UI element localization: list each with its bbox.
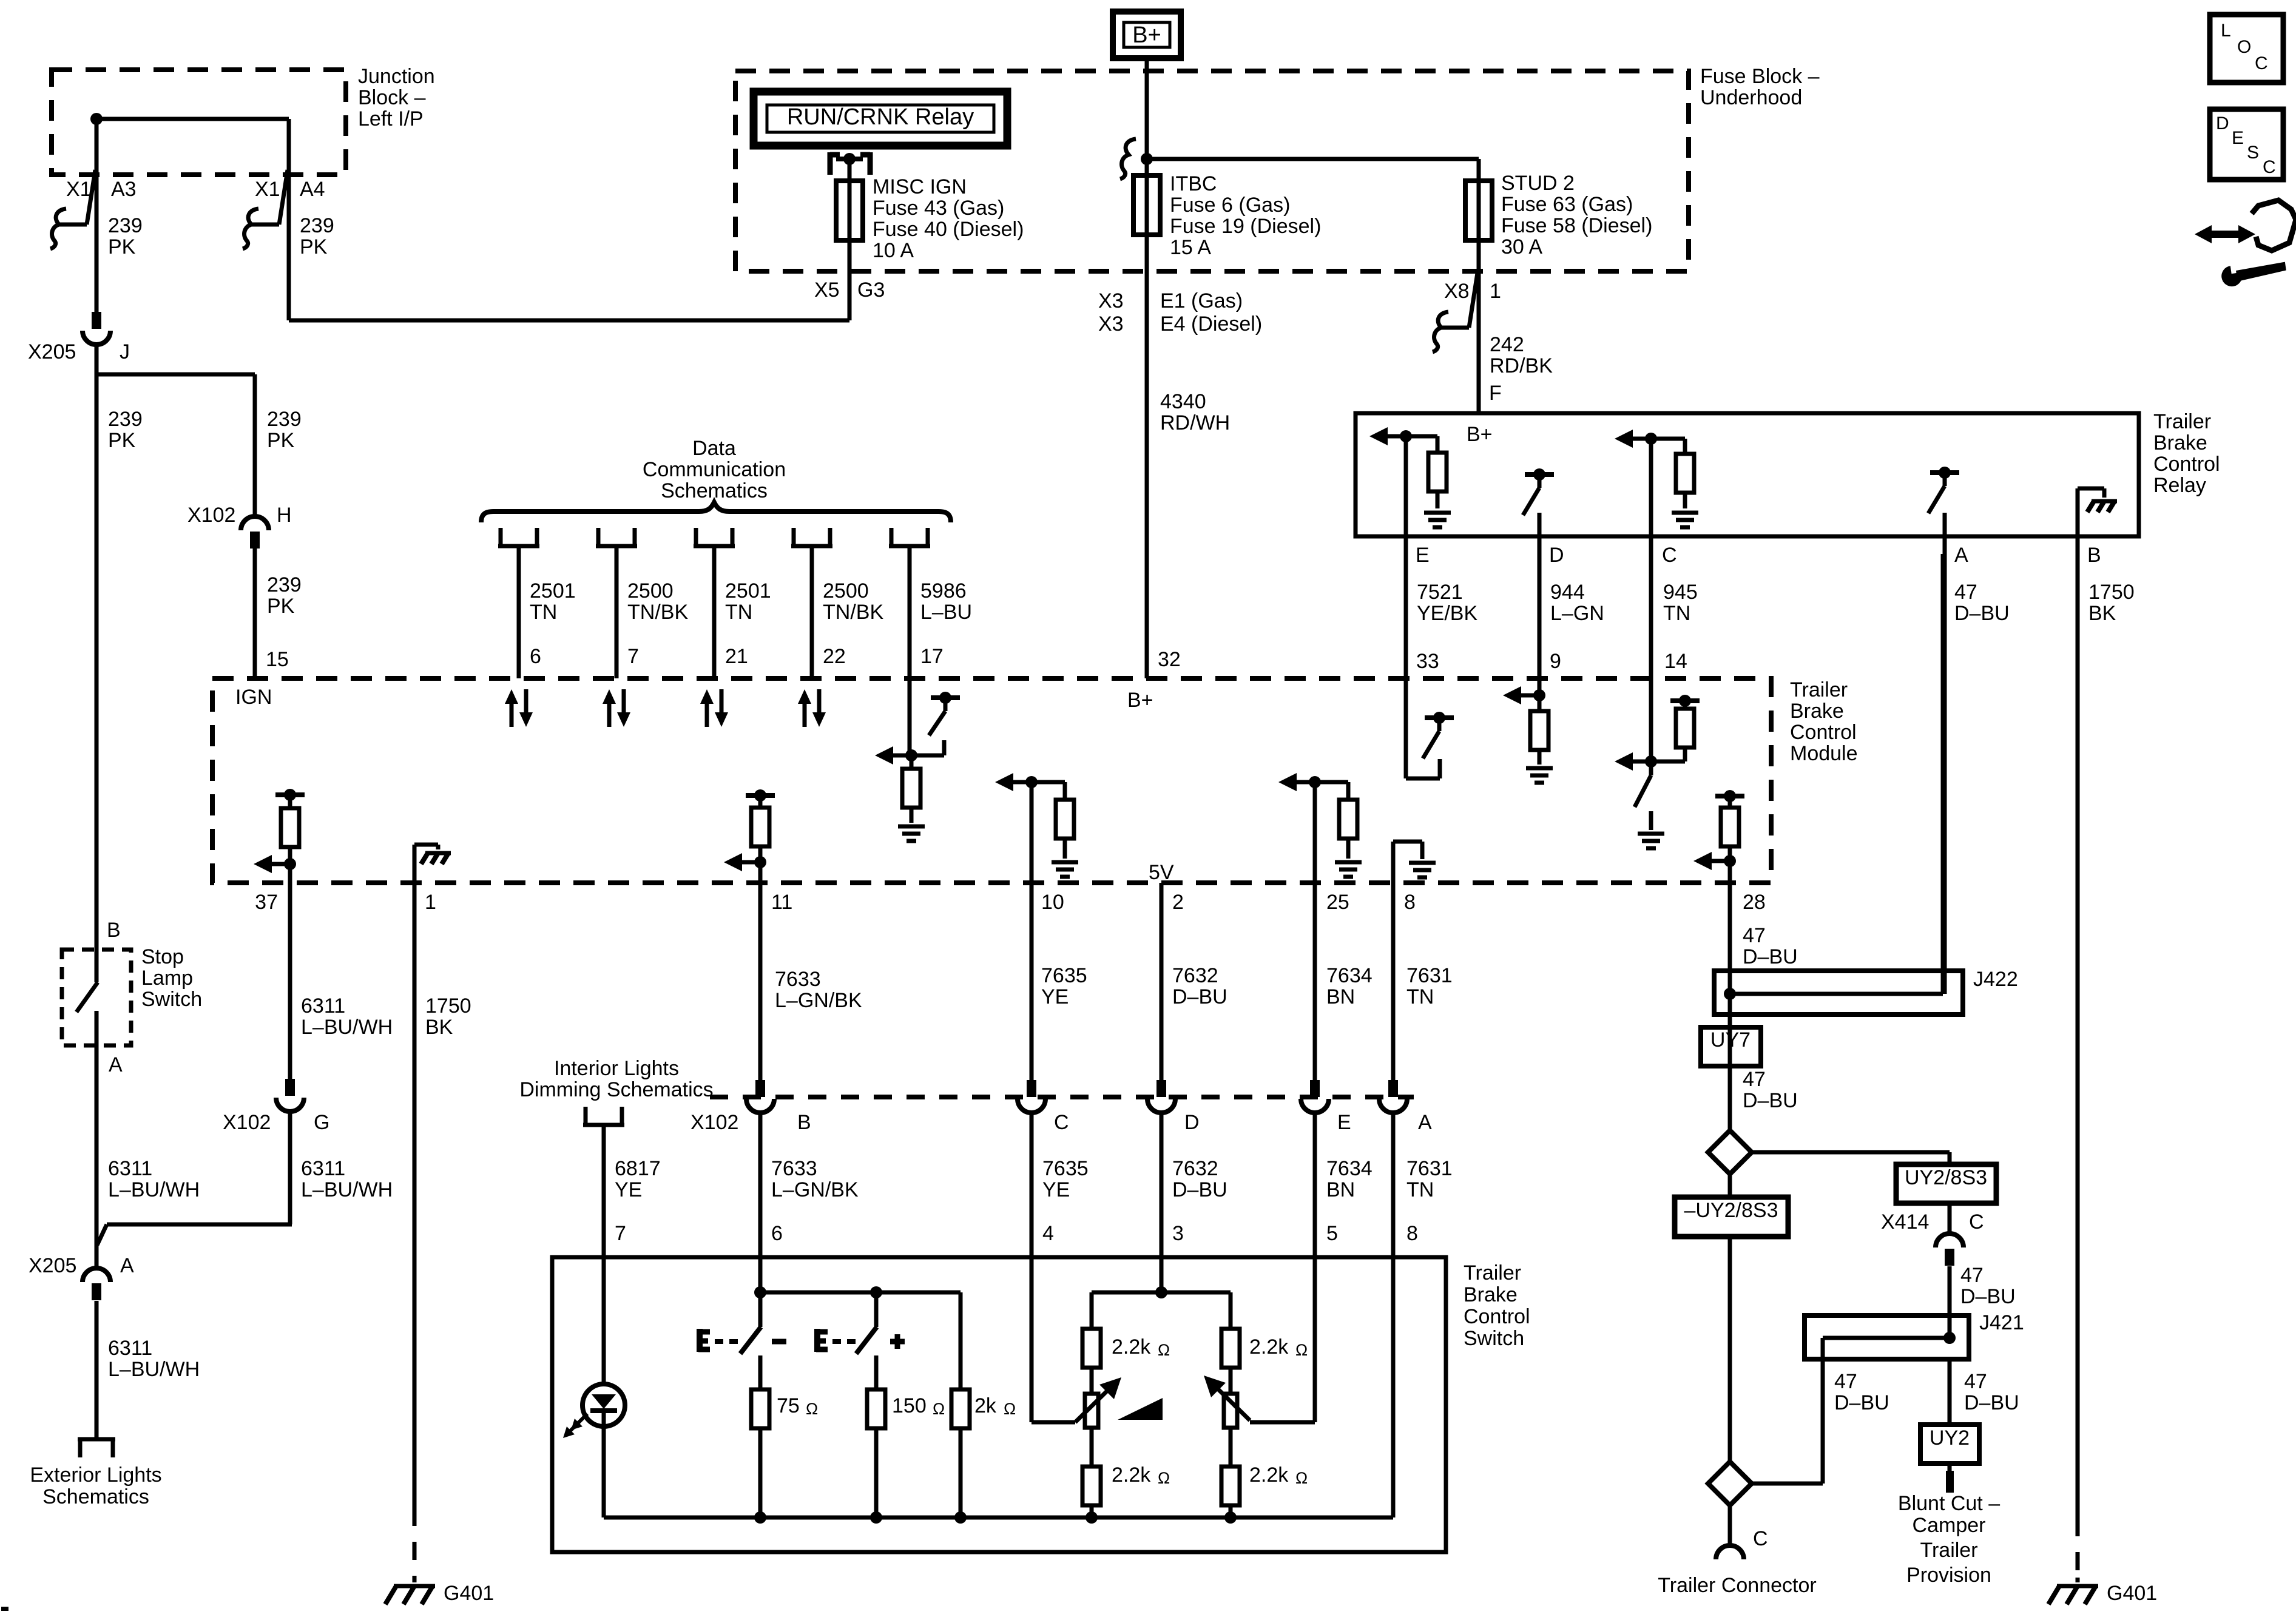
svg-text:L–BU/WH: L–BU/WH	[108, 1358, 200, 1381]
svg-text:A: A	[1954, 544, 1968, 567]
svg-text:7632: 7632	[1172, 1157, 1218, 1180]
svg-text:47: 47	[1834, 1370, 1857, 1393]
svg-text:X102: X102	[187, 504, 235, 527]
svg-text:25: 25	[1326, 891, 1349, 914]
svg-text:Underhood: Underhood	[1700, 86, 1802, 109]
svg-text:15: 15	[266, 648, 289, 671]
svg-text:33: 33	[1416, 650, 1439, 673]
svg-text:D–BU: D–BU	[1964, 1391, 2019, 1414]
svg-text:X3: X3	[1098, 289, 1124, 312]
svg-text:6311: 6311	[108, 1157, 152, 1180]
svg-text:G: G	[314, 1111, 329, 1134]
svg-text:UY7: UY7	[1710, 1028, 1751, 1052]
svg-text:L–GN/BK: L–GN/BK	[771, 1178, 859, 1201]
svg-text:Left I/P: Left I/P	[358, 107, 424, 130]
svg-text:F: F	[1489, 382, 1502, 405]
svg-text:Relay: Relay	[2153, 474, 2206, 497]
svg-text:PK: PK	[267, 429, 295, 452]
svg-text:S: S	[2247, 143, 2259, 163]
svg-text:D–BU: D–BU	[1172, 1178, 1227, 1201]
svg-text:47: 47	[1960, 1264, 1984, 1287]
svg-text:Interior Lights: Interior Lights	[554, 1057, 679, 1080]
svg-text:Exterior Lights: Exterior Lights	[30, 1463, 161, 1487]
svg-text:32: 32	[1158, 648, 1181, 671]
svg-text:C: C	[1054, 1111, 1069, 1134]
svg-text:14: 14	[1664, 650, 1687, 673]
svg-text:Schematics: Schematics	[42, 1485, 149, 1508]
svg-text:MISC IGN: MISC IGN	[873, 175, 967, 198]
svg-text:B: B	[107, 919, 121, 942]
svg-text:7633: 7633	[771, 1157, 817, 1180]
svg-text:Trailer Connector: Trailer Connector	[1658, 1574, 1816, 1597]
svg-text:Ω: Ω	[1158, 1341, 1170, 1359]
svg-text:Ω: Ω	[1004, 1400, 1016, 1418]
svg-text:9: 9	[1550, 650, 1561, 673]
svg-text:B+: B+	[1127, 689, 1153, 712]
svg-text:L–GN: L–GN	[1550, 602, 1604, 625]
svg-text:B+: B+	[1132, 22, 1161, 48]
svg-text:Dimming Schematics: Dimming Schematics	[519, 1078, 713, 1101]
svg-text:PK: PK	[267, 595, 295, 618]
svg-text:Brake: Brake	[1464, 1283, 1518, 1306]
svg-text:Junction: Junction	[358, 65, 435, 88]
svg-text:D–BU: D–BU	[1743, 945, 1798, 968]
svg-text:ITBC: ITBC	[1170, 172, 1217, 195]
svg-text:E: E	[1416, 544, 1430, 567]
svg-text:Control: Control	[1464, 1305, 1530, 1328]
svg-text:L–BU: L–BU	[920, 601, 972, 624]
svg-text:Camper: Camper	[1913, 1514, 1986, 1537]
svg-text:D: D	[1184, 1111, 1200, 1134]
svg-text:Ω: Ω	[933, 1400, 945, 1418]
svg-text:UY2/8S3: UY2/8S3	[1905, 1166, 1987, 1189]
svg-text:YE: YE	[615, 1178, 642, 1201]
svg-text:Communication: Communication	[643, 458, 786, 481]
svg-text:TN: TN	[1406, 985, 1434, 1008]
svg-text:C: C	[1969, 1210, 1984, 1234]
svg-text:3: 3	[1172, 1222, 1184, 1245]
svg-text:239: 239	[267, 573, 302, 596]
svg-text:2k: 2k	[974, 1394, 997, 1417]
svg-text:Trailer: Trailer	[1920, 1539, 1977, 1562]
svg-text:TN: TN	[1663, 602, 1690, 625]
svg-text:Stop: Stop	[141, 945, 184, 968]
svg-text:10 A: 10 A	[873, 239, 914, 262]
svg-text:5V: 5V	[1149, 861, 1174, 884]
svg-text:6: 6	[771, 1222, 783, 1245]
svg-text:Brake: Brake	[2153, 431, 2207, 454]
svg-text:Trailer: Trailer	[2153, 410, 2211, 433]
svg-text:150: 150	[892, 1394, 927, 1417]
svg-text:D: D	[1549, 544, 1564, 567]
svg-text:4340: 4340	[1160, 390, 1206, 413]
svg-text:Fuse 43 (Gas): Fuse 43 (Gas)	[873, 197, 1004, 220]
svg-text:239: 239	[108, 214, 143, 237]
svg-text:4: 4	[1042, 1222, 1054, 1245]
svg-text:–UY2/8S3: –UY2/8S3	[1684, 1199, 1778, 1222]
svg-text:G3: G3	[857, 279, 885, 302]
svg-text:239: 239	[267, 408, 302, 431]
svg-text:L–GN/BK: L–GN/BK	[775, 989, 862, 1012]
svg-text:X3: X3	[1098, 312, 1124, 336]
svg-text:8: 8	[1406, 1222, 1418, 1245]
svg-text:2501: 2501	[530, 579, 576, 603]
svg-text:21: 21	[725, 645, 748, 668]
svg-text:242: 242	[1490, 333, 1524, 356]
svg-text:RUN/CRNK Relay: RUN/CRNK Relay	[787, 104, 974, 130]
svg-text:L–BU/WH: L–BU/WH	[108, 1178, 200, 1201]
svg-text:47: 47	[1743, 924, 1766, 947]
svg-text:A4: A4	[300, 178, 325, 201]
svg-text:RD/BK: RD/BK	[1490, 354, 1553, 377]
svg-text:Control: Control	[1790, 721, 1857, 744]
svg-text:Fuse 19 (Diesel): Fuse 19 (Diesel)	[1170, 215, 1321, 238]
svg-text:7: 7	[627, 645, 639, 668]
svg-text:22: 22	[823, 645, 846, 668]
svg-text:Ω: Ω	[1295, 1341, 1308, 1359]
svg-text:TN/BK: TN/BK	[823, 601, 883, 624]
svg-text:Trailer: Trailer	[1790, 678, 1848, 701]
svg-text:47: 47	[1954, 581, 1977, 604]
svg-text:X102: X102	[690, 1111, 738, 1134]
svg-text:B+: B+	[1467, 423, 1493, 446]
svg-text:7632: 7632	[1172, 964, 1218, 987]
svg-text:1750: 1750	[425, 994, 471, 1018]
svg-text:D–BU: D–BU	[1743, 1089, 1798, 1112]
svg-text:7: 7	[615, 1222, 626, 1245]
svg-text:D–BU: D–BU	[1960, 1285, 2016, 1308]
svg-text:28: 28	[1743, 891, 1766, 914]
svg-text:G401: G401	[2107, 1582, 2157, 1605]
svg-text:A3: A3	[111, 178, 137, 201]
svg-text:O: O	[2237, 37, 2251, 57]
svg-text:6817: 6817	[615, 1157, 661, 1180]
svg-text:2.2k: 2.2k	[1249, 1335, 1289, 1359]
svg-text:47: 47	[1964, 1370, 1987, 1393]
svg-text:BN: BN	[1326, 985, 1355, 1008]
svg-text:J422: J422	[1973, 968, 2018, 991]
svg-text:Module: Module	[1790, 742, 1858, 765]
svg-text:X102: X102	[223, 1111, 271, 1134]
svg-text:15 A: 15 A	[1170, 236, 1211, 259]
svg-text:7634: 7634	[1326, 964, 1373, 987]
svg-text:Switch: Switch	[1464, 1327, 1524, 1350]
svg-text:30 A: 30 A	[1501, 235, 1542, 258]
svg-text:1: 1	[425, 891, 436, 914]
svg-text:17: 17	[920, 645, 944, 668]
svg-text:Fuse 40 (Diesel): Fuse 40 (Diesel)	[873, 218, 1024, 241]
svg-text:75: 75	[777, 1394, 800, 1417]
svg-text:C: C	[2263, 157, 2276, 177]
svg-text:RD/WH: RD/WH	[1160, 411, 1230, 434]
svg-text:E: E	[1337, 1111, 1351, 1134]
svg-text:7631: 7631	[1406, 964, 1453, 987]
svg-text:BK: BK	[2088, 602, 2116, 625]
svg-text:X1: X1	[255, 178, 280, 201]
svg-text:945: 945	[1663, 581, 1698, 604]
svg-text:944: 944	[1550, 581, 1585, 604]
svg-text:C: C	[2255, 53, 2268, 73]
svg-text:1: 1	[1490, 280, 1501, 303]
svg-text:2.2k: 2.2k	[1112, 1463, 1151, 1487]
svg-text:A: A	[109, 1053, 123, 1076]
svg-text:Control: Control	[2153, 453, 2220, 476]
svg-text:2500: 2500	[823, 579, 869, 603]
svg-text:B: B	[797, 1111, 811, 1134]
svg-text:L–BU/WH: L–BU/WH	[301, 1016, 393, 1039]
svg-text:X8: X8	[1444, 280, 1470, 303]
svg-text:YE: YE	[1041, 985, 1069, 1008]
svg-text:10: 10	[1041, 891, 1064, 914]
svg-text:2: 2	[1172, 891, 1184, 914]
svg-text:YE/BK: YE/BK	[1417, 602, 1477, 625]
svg-text:YE: YE	[1042, 1178, 1070, 1201]
svg-text:D–BU: D–BU	[1172, 985, 1227, 1008]
svg-text:L: L	[2221, 21, 2231, 41]
svg-text:TN: TN	[530, 601, 557, 624]
svg-text:37: 37	[255, 891, 278, 914]
svg-text:7634: 7634	[1326, 1157, 1373, 1180]
svg-text:A: A	[1418, 1111, 1432, 1134]
svg-text:Fuse Block –: Fuse Block –	[1700, 65, 1820, 88]
svg-text:X414: X414	[1881, 1210, 1929, 1234]
svg-text:TN/BK: TN/BK	[627, 601, 688, 624]
svg-text:Blunt Cut –: Blunt Cut –	[1898, 1492, 2000, 1515]
svg-text:5986: 5986	[920, 579, 967, 603]
svg-text:PK: PK	[108, 429, 136, 452]
svg-text:6: 6	[530, 645, 541, 668]
svg-text:Switch: Switch	[141, 988, 202, 1011]
svg-text:X205: X205	[28, 340, 76, 363]
svg-text:A: A	[120, 1254, 134, 1277]
svg-text:239: 239	[300, 214, 334, 237]
svg-text:E1 (Gas): E1 (Gas)	[1160, 289, 1243, 312]
svg-text:BN: BN	[1326, 1178, 1355, 1201]
svg-text:TN: TN	[1406, 1178, 1434, 1201]
svg-text:Fuse 58 (Diesel): Fuse 58 (Diesel)	[1501, 214, 1652, 237]
svg-text:C: C	[1662, 544, 1677, 567]
svg-text:Block –: Block –	[358, 86, 426, 109]
svg-text:UY2: UY2	[1930, 1426, 1970, 1450]
svg-text:2.2k: 2.2k	[1249, 1463, 1289, 1487]
svg-text:J: J	[120, 340, 130, 363]
svg-text:Fuse 6 (Gas): Fuse 6 (Gas)	[1170, 194, 1290, 217]
svg-text:8: 8	[1404, 891, 1416, 914]
svg-text:1750: 1750	[2088, 581, 2135, 604]
svg-text:2500: 2500	[627, 579, 674, 603]
svg-text:239: 239	[108, 408, 143, 431]
svg-text:7633: 7633	[775, 968, 821, 991]
svg-text:2.2k: 2.2k	[1112, 1335, 1151, 1359]
svg-text:Ω: Ω	[1158, 1469, 1170, 1487]
svg-text:47: 47	[1743, 1068, 1766, 1091]
svg-text:J421: J421	[1979, 1311, 2024, 1334]
svg-text:Ω: Ω	[1295, 1469, 1308, 1487]
svg-text:Ω: Ω	[806, 1400, 818, 1418]
svg-text:H: H	[277, 504, 292, 527]
svg-text:X205: X205	[29, 1254, 76, 1277]
svg-text:7631: 7631	[1406, 1157, 1453, 1180]
svg-text:X5: X5	[814, 279, 840, 302]
svg-text:L–BU/WH: L–BU/WH	[301, 1178, 393, 1201]
svg-text:PK: PK	[300, 235, 328, 258]
svg-text:7521: 7521	[1417, 581, 1463, 604]
svg-text:Trailer: Trailer	[1464, 1261, 1521, 1284]
svg-text:D: D	[2216, 113, 2229, 133]
svg-text:BK: BK	[425, 1016, 453, 1039]
svg-text:6311: 6311	[301, 994, 345, 1018]
svg-text:6311: 6311	[301, 1157, 345, 1180]
svg-text:6311: 6311	[108, 1337, 152, 1360]
svg-text:11: 11	[771, 891, 792, 914]
svg-text:PK: PK	[108, 235, 136, 258]
svg-text:Brake: Brake	[1790, 700, 1844, 723]
svg-text:E4 (Diesel): E4 (Diesel)	[1160, 312, 1262, 336]
svg-text:Data: Data	[692, 437, 736, 460]
svg-text:7635: 7635	[1042, 1157, 1089, 1180]
svg-text:IGN: IGN	[235, 686, 272, 709]
svg-text:STUD 2: STUD 2	[1501, 172, 1575, 195]
svg-text:E: E	[2232, 128, 2244, 148]
svg-text:G401: G401	[444, 1582, 494, 1605]
svg-text:Fuse 63 (Gas): Fuse 63 (Gas)	[1501, 193, 1633, 216]
svg-text:2501: 2501	[725, 579, 771, 603]
svg-text:D–BU: D–BU	[1954, 602, 2010, 625]
svg-text:Lamp: Lamp	[141, 967, 193, 990]
svg-text:B: B	[2087, 544, 2101, 567]
svg-text:X1: X1	[66, 178, 92, 201]
svg-text:D–BU: D–BU	[1834, 1391, 1889, 1414]
svg-text:7635: 7635	[1041, 964, 1087, 987]
svg-text:TN: TN	[725, 601, 752, 624]
svg-text:C: C	[1753, 1527, 1768, 1550]
svg-text:5: 5	[1326, 1222, 1338, 1245]
svg-text:Provision: Provision	[1906, 1564, 1991, 1587]
